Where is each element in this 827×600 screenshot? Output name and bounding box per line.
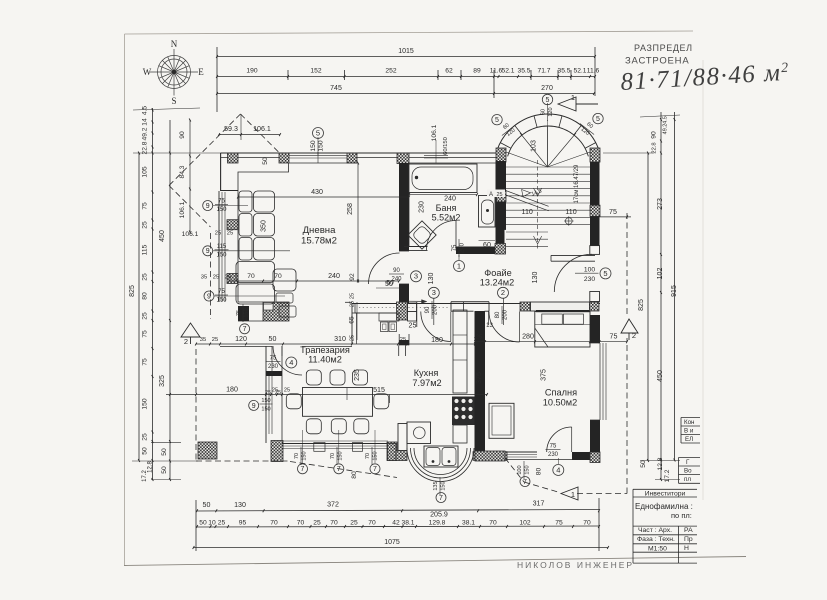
svg-text:7: 7	[373, 466, 377, 473]
svg-text:5: 5	[546, 97, 550, 104]
svg-text:25: 25	[225, 275, 231, 281]
svg-text:25: 25	[272, 388, 278, 394]
svg-text:N: N	[171, 39, 178, 49]
svg-text:106.1: 106.1	[179, 201, 186, 218]
designers mini table	[679, 418, 701, 484]
svg-text:80: 80	[495, 311, 501, 318]
kitchen counter cabinets	[453, 310, 467, 393]
svg-text:9: 9	[206, 203, 210, 210]
side table	[279, 306, 296, 317]
svg-text:80: 80	[142, 292, 149, 300]
bath-foyer wall	[404, 246, 428, 248]
svg-text:70: 70	[365, 453, 371, 459]
svg-text:17.2: 17.2	[664, 469, 671, 482]
svg-text:1015: 1015	[398, 48, 414, 55]
foyer bottom wall	[352, 303, 600, 305]
svg-text:49.2: 49.2	[663, 124, 669, 135]
svg-text:22.8: 22.8	[142, 141, 149, 154]
svg-text:75: 75	[609, 208, 617, 216]
svg-text:150: 150	[216, 298, 227, 304]
svg-text:25: 25	[409, 322, 417, 330]
svg-text:25: 25	[496, 192, 502, 198]
svg-text:200: 200	[432, 304, 438, 315]
bath left wall = living right wall continues	[408, 163, 410, 247]
svg-text:12.8: 12.8	[657, 457, 664, 470]
svg-text:129.8: 129.8	[429, 519, 446, 526]
svg-text:по пл:: по пл:	[671, 511, 692, 520]
pier L2	[227, 274, 238, 284]
door 4 dining arc	[273, 346, 302, 375]
svg-text:1: 1	[571, 490, 575, 499]
svg-text:17см 16.47/29: 17см 16.47/29	[574, 164, 580, 203]
svg-text:50: 50	[161, 448, 168, 456]
arrow 1 top	[558, 97, 576, 111]
svg-text:13.24м2: 13.24м2	[480, 278, 514, 288]
svg-text:70: 70	[270, 519, 278, 526]
svg-text:50: 50	[199, 519, 207, 526]
svg-text:103: 103	[530, 140, 538, 152]
svg-text:3: 3	[432, 288, 436, 297]
svg-text:25: 25	[350, 519, 358, 526]
svg-text:А: А	[489, 192, 493, 198]
svg-text:75: 75	[452, 244, 458, 251]
svg-text:ЕЛ: ЕЛ	[685, 436, 693, 443]
svg-text:70: 70	[489, 519, 497, 526]
svg-text:1: 1	[457, 261, 461, 270]
front door arc (5)	[554, 254, 592, 292]
svg-text:75: 75	[142, 202, 149, 210]
svg-text:100: 100	[517, 465, 523, 474]
svg-text:825: 825	[638, 299, 645, 311]
svg-text:130: 130	[234, 501, 246, 509]
svg-text:150: 150	[372, 451, 378, 460]
svg-text:25: 25	[142, 221, 149, 229]
svg-text:2: 2	[184, 337, 188, 346]
258 dim	[357, 163, 359, 281]
pier L1	[227, 220, 238, 230]
dining table with chairs	[303, 388, 373, 417]
circled 5 window label top	[313, 128, 324, 139]
bed bedroom	[535, 312, 590, 348]
left stair pier	[497, 191, 507, 202]
door 3 living arc	[369, 253, 400, 284]
handrail diagonal	[506, 191, 549, 207]
svg-text:Баня: Баня	[436, 203, 457, 213]
svg-text:25: 25	[476, 335, 482, 341]
svg-text:22.8: 22.8	[652, 142, 658, 153]
top dimension chain	[217, 56, 595, 58]
svg-text:4.5: 4.5	[663, 116, 669, 124]
pier P1	[228, 153, 239, 163]
svg-text:25: 25	[213, 275, 219, 281]
svg-text:90: 90	[425, 306, 431, 313]
240 dim line	[229, 280, 399, 282]
svg-text:25: 25	[142, 273, 149, 281]
svg-text:102: 102	[657, 268, 664, 280]
svg-text:25: 25	[350, 335, 356, 341]
bath right wall	[496, 161, 505, 244]
svg-text:10.50м2: 10.50м2	[543, 398, 577, 408]
pier P4	[397, 153, 409, 164]
winder fan lines	[506, 152, 548, 167]
svg-text:252: 252	[385, 68, 396, 75]
chairs	[306, 370, 321, 385]
svg-text:пл: пл	[684, 476, 691, 483]
right stair pier	[590, 205, 600, 216]
svg-text:135: 135	[433, 481, 439, 490]
svg-text:240: 240	[328, 272, 340, 280]
svg-text:75: 75	[555, 519, 563, 526]
svg-text:3: 3	[414, 272, 418, 281]
svg-text:375: 375	[540, 369, 548, 381]
left wall window band	[218, 191, 220, 302]
svg-text:115: 115	[217, 244, 227, 250]
svg-text:2: 2	[501, 288, 505, 297]
svg-text:11.6: 11.6	[587, 68, 600, 75]
stair center dashed line	[537, 160, 539, 250]
svg-text:89: 89	[473, 68, 481, 75]
svg-text:825: 825	[129, 285, 136, 297]
kitchen-bedroom wall	[475, 311, 486, 452]
arch end piers	[496, 148, 506, 162]
svg-text:430: 430	[311, 188, 323, 196]
svg-text:120: 120	[235, 335, 247, 343]
svg-text:75: 75	[142, 330, 149, 338]
title block (Инвеститори / Еднофамилна)	[633, 489, 697, 563]
dashed roof diamond	[169, 114, 241, 186]
svg-text:5: 5	[495, 117, 499, 124]
washing machine	[407, 422, 431, 444]
door 2 arc	[489, 312, 520, 343]
wall living-dining	[196, 343, 479, 345]
svg-text:52.1: 52.1	[501, 68, 514, 75]
svg-text:70: 70	[583, 519, 591, 526]
svg-text:Трапезария: Трапезария	[300, 345, 350, 355]
svg-text:РАЗПРЕДЕЛ: РАЗПРЕДЕЛ	[634, 43, 693, 53]
circled 7 label	[240, 324, 250, 334]
svg-text:106.1: 106.1	[182, 231, 199, 238]
svg-text:Кухня: Кухня	[414, 368, 439, 378]
dashed terrace boundary	[210, 233, 212, 319]
window label 9b	[203, 246, 213, 256]
svg-text:110: 110	[565, 208, 576, 216]
svg-text:Пр: Пр	[684, 536, 693, 543]
svg-text:70: 70	[297, 519, 305, 526]
svg-text:273: 273	[657, 198, 664, 210]
wall x=352 living-corridor	[351, 304, 353, 345]
svg-text:1: 1	[571, 93, 575, 102]
svg-text:50: 50	[640, 460, 647, 468]
svg-text:230: 230	[268, 364, 279, 370]
svg-text:150: 150	[216, 252, 227, 258]
svg-text:90: 90	[393, 268, 400, 274]
svg-text:270: 270	[541, 85, 553, 92]
svg-text:150: 150	[261, 407, 270, 413]
bottom dimension chains	[197, 510, 599, 512]
svg-text:150: 150	[524, 465, 530, 474]
svg-text:200: 200	[459, 242, 465, 253]
svg-text:190: 190	[246, 68, 257, 75]
window label 9a	[203, 201, 213, 211]
svg-text:50: 50	[262, 157, 269, 165]
svg-text:50: 50	[161, 466, 168, 474]
svg-text:РА: РА	[684, 527, 693, 534]
compass rose (north arrow)	[150, 49, 198, 96]
window label 9c	[204, 291, 214, 301]
svg-text:25: 25	[284, 388, 290, 394]
sheet frame	[125, 31, 694, 34]
svg-text:152: 152	[310, 68, 321, 75]
svg-text:25: 25	[142, 312, 149, 320]
svg-text:230: 230	[548, 452, 559, 458]
svg-text:90: 90	[651, 131, 658, 139]
svg-text:9: 9	[206, 248, 210, 255]
labels doors 2,3	[428, 287, 439, 298]
svg-text:Инвеститори: Инвеститори	[645, 490, 686, 497]
entrance arch bay (semicircular porch)	[497, 114, 599, 150]
svg-text:13: 13	[486, 323, 493, 329]
dining window label	[249, 400, 259, 410]
svg-text:70: 70	[247, 273, 255, 280]
svg-text:258: 258	[346, 203, 354, 215]
kitchen double sink in bay	[424, 446, 458, 467]
svg-text:375: 375	[475, 372, 483, 384]
430 dim	[238, 196, 409, 198]
svg-text:25: 25	[218, 519, 226, 526]
svg-text:95: 95	[239, 519, 247, 526]
svg-text:38.1: 38.1	[401, 519, 414, 526]
svg-text:Дневна: Дневна	[303, 225, 337, 236]
right dimension chains	[647, 153, 649, 461]
svg-text:150: 150	[216, 207, 227, 213]
svg-text:150: 150	[261, 398, 270, 404]
pier dining bottom-left	[271, 441, 283, 462]
svg-text:60/150: 60/150	[443, 137, 449, 155]
door 4 bedroom arc	[547, 427, 572, 452]
circled 5 labels on arch	[492, 115, 502, 125]
svg-text:7: 7	[439, 495, 443, 502]
free-standing terrace pier (hatched)	[198, 442, 217, 459]
svg-text:70: 70	[274, 273, 282, 280]
svg-text:50: 50	[386, 280, 394, 287]
kitchen-dining partition	[399, 340, 409, 345]
pier F4	[590, 292, 600, 302]
svg-text:130: 130	[427, 273, 435, 285]
svg-text:235: 235	[353, 369, 361, 381]
svg-text:42: 42	[392, 519, 400, 526]
bath door arc (1)	[427, 221, 457, 251]
bath top wall window 60/150	[424, 154, 448, 156]
svg-text:НИКОЛОВ ИНЖЕНЕР: НИКОЛОВ ИНЖЕНЕР	[517, 560, 634, 570]
washbasin cabinet	[479, 196, 496, 228]
svg-text:230: 230	[584, 276, 595, 283]
svg-text:25: 25	[313, 519, 321, 526]
pier bath-foyer	[495, 244, 506, 255]
svg-text:150: 150	[310, 140, 317, 151]
pier dining bottom-right	[387, 442, 397, 461]
svg-text:102: 102	[519, 519, 530, 526]
svg-text:515: 515	[373, 386, 385, 394]
bedroom dim line 280	[475, 341, 627, 343]
svg-text:70: 70	[330, 519, 338, 526]
svg-text:90: 90	[179, 131, 186, 139]
svg-text:65: 65	[349, 316, 356, 324]
interior line of top-left wall	[238, 163, 289, 191]
svg-text:205.9: 205.9	[430, 511, 448, 519]
svg-text:915: 915	[671, 285, 678, 297]
wall segment 451-489 with divider	[451, 301, 489, 303]
svg-text:280: 280	[522, 333, 534, 341]
dining bottom window band	[282, 443, 388, 445]
svg-text:325: 325	[159, 375, 166, 387]
svg-text:Г: Г	[686, 459, 690, 466]
svg-text:150: 150	[440, 481, 446, 490]
bathtub	[409, 164, 478, 193]
svg-text:17.2: 17.2	[142, 470, 148, 482]
svg-text:Еднофамилна :: Еднофамилна :	[635, 502, 693, 511]
svg-text:110: 110	[522, 208, 533, 216]
svg-text:59.3: 59.3	[224, 125, 238, 133]
svg-text:75: 75	[218, 289, 225, 295]
kitchen stove	[452, 397, 475, 426]
svg-text:50: 50	[269, 335, 277, 343]
svg-text:745: 745	[330, 85, 342, 92]
svg-text:75: 75	[236, 310, 242, 316]
svg-text:38.1: 38.1	[462, 519, 475, 526]
svg-text:106.1: 106.1	[431, 124, 438, 141]
washer side cabinet	[398, 424, 407, 451]
svg-text:W: W	[143, 67, 152, 77]
svg-text:2: 2	[632, 331, 636, 340]
svg-text:9: 9	[252, 403, 256, 410]
svg-text:150: 150	[337, 451, 343, 460]
svg-text:35: 35	[200, 337, 206, 343]
svg-text:180: 180	[226, 386, 238, 394]
svg-text:115: 115	[142, 244, 149, 255]
svg-text:75: 75	[218, 199, 225, 205]
svg-text:130: 130	[531, 272, 539, 284]
svg-text:450: 450	[657, 370, 664, 382]
svg-text:62: 62	[445, 68, 453, 75]
svg-text:1075: 1075	[384, 539, 400, 546]
svg-text:92: 92	[349, 273, 356, 281]
svg-text:Част : Арх.: Част : Арх.	[638, 527, 672, 534]
svg-text:120: 120	[548, 107, 554, 116]
svg-text:25: 25	[142, 433, 149, 441]
svg-text:25: 25	[350, 293, 356, 299]
svg-text:50: 50	[203, 501, 211, 509]
bedroom right window	[599, 343, 601, 420]
bedroom wardrobe	[489, 403, 514, 438]
pier F3	[520, 302, 530, 311]
wall living-foyer	[399, 163, 409, 251]
bedroom top wall	[531, 302, 590, 311]
svg-text:М1:50: М1:50	[648, 545, 667, 552]
svg-text:350: 350	[260, 220, 268, 232]
window 150/150 top	[289, 154, 347, 156]
svg-text:49.2: 49.2	[142, 127, 149, 140]
svg-text:60: 60	[540, 109, 546, 115]
stair bottom wall + front door	[551, 254, 595, 256]
arrow 2 right	[621, 319, 638, 333]
stair side walls	[497, 161, 507, 202]
svg-text:Н: Н	[684, 545, 689, 552]
svg-text:35: 35	[201, 275, 207, 281]
arrow 1 bottom	[561, 487, 578, 500]
svg-text:150: 150	[243, 308, 249, 317]
svg-text:5: 5	[603, 269, 607, 278]
bedroom bottom wall	[572, 452, 592, 460]
svg-text:75: 75	[142, 358, 149, 366]
pier P2	[279, 153, 289, 163]
svg-text:В и: В и	[684, 428, 694, 435]
svg-text:7.97м2: 7.97м2	[412, 378, 441, 388]
svg-text:4: 4	[289, 358, 293, 367]
svg-text:80: 80	[351, 471, 358, 479]
pier F1	[397, 302, 408, 320]
svg-text:25: 25	[215, 231, 221, 237]
svg-text:7: 7	[301, 466, 305, 473]
kitchen bay window	[388, 444, 397, 461]
arrow 2 left	[181, 323, 200, 337]
pier P3	[347, 153, 357, 163]
door 3b arc	[421, 312, 451, 342]
svg-text:4: 4	[556, 465, 560, 474]
svg-text:4.5: 4.5	[142, 106, 149, 116]
svg-text:150: 150	[142, 398, 149, 409]
svg-text:310: 310	[334, 335, 346, 343]
corner sofa living room	[239, 191, 252, 212]
svg-text:S: S	[171, 96, 176, 106]
svg-text:80: 80	[536, 468, 543, 476]
svg-text:240: 240	[444, 195, 456, 203]
stair treads	[506, 166, 590, 168]
dining left wall	[265, 346, 267, 443]
svg-text:E: E	[198, 67, 204, 77]
svg-text:70: 70	[330, 453, 336, 459]
svg-text:70: 70	[368, 519, 376, 526]
svg-text:317: 317	[533, 500, 545, 508]
svg-text:Спалня: Спалня	[545, 388, 577, 398]
svg-text:Фаза : Техн.: Фаза : Техн.	[637, 536, 675, 543]
svg-text:70: 70	[294, 453, 300, 459]
top wall exterior	[221, 152, 497, 154]
armchair living room	[273, 269, 296, 291]
svg-text:372: 372	[327, 501, 339, 509]
svg-text:75: 75	[550, 444, 557, 450]
toilet (rotated square)	[408, 221, 436, 249]
svg-text:230: 230	[418, 201, 426, 213]
svg-text:14.5: 14.5	[531, 188, 543, 197]
svg-text:5: 5	[596, 116, 600, 123]
svg-text:450: 450	[159, 230, 166, 242]
svg-text:Кон: Кон	[684, 419, 694, 426]
svg-text:Во: Во	[684, 468, 692, 475]
svg-text:50: 50	[142, 447, 149, 455]
svg-text:10: 10	[208, 519, 216, 526]
svg-text:35.5: 35.5	[517, 68, 530, 75]
svg-text:71.7: 71.7	[537, 68, 550, 75]
svg-text:11.40м2: 11.40м2	[308, 355, 342, 365]
svg-text:7: 7	[243, 326, 247, 333]
svg-text:25: 25	[350, 301, 356, 307]
svg-text:100: 100	[584, 267, 595, 274]
svg-text:60: 60	[483, 241, 491, 249]
svg-text:25: 25	[212, 337, 218, 343]
svg-text:Фоайе: Фоайе	[484, 268, 511, 278]
svg-text:5.52м2: 5.52м2	[432, 213, 461, 223]
svg-text:105: 105	[142, 166, 149, 177]
